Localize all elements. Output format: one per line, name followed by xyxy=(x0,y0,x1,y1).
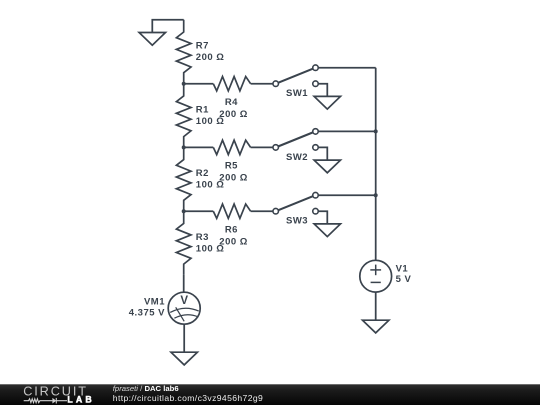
svg-text:V: V xyxy=(180,295,188,307)
wire SW3 throw to bus xyxy=(318,194,375,196)
svg-text:4.375 V: 4.375 V xyxy=(129,307,165,318)
wire SW2 throw to bus xyxy=(318,130,375,132)
voltage source V1 xyxy=(360,260,412,292)
ground xyxy=(314,224,340,237)
svg-text:SW3: SW3 xyxy=(286,216,308,227)
node junction R7/R1/R4 xyxy=(182,82,186,86)
svg-text:200 Ω: 200 Ω xyxy=(219,109,248,120)
wire R6 to SW3 xyxy=(251,210,273,212)
ground xyxy=(314,160,340,173)
svg-text:VM1: VM1 xyxy=(144,296,165,307)
node junction R2/R3/R6 xyxy=(182,209,186,213)
resistor R1 xyxy=(176,84,224,148)
wire junction to R4 xyxy=(184,83,214,85)
svg-text:R4: R4 xyxy=(225,97,238,108)
wire V1 to ground xyxy=(375,292,377,320)
footer bar xyxy=(0,384,540,405)
wire top ground to R7 xyxy=(152,20,183,33)
wire junction to R6 xyxy=(184,210,214,212)
resistor R4 xyxy=(213,77,250,120)
svg-text:R5: R5 xyxy=(225,161,238,172)
svg-text:SW1: SW1 xyxy=(286,88,308,99)
wire VM1 to ground xyxy=(183,324,185,352)
svg-text:200 Ω: 200 Ω xyxy=(196,52,225,63)
svg-text:http://circuitlab.com/c3vz9456: http://circuitlab.com/c3vz9456h72g9 xyxy=(113,393,263,403)
resistor R3 xyxy=(176,211,224,275)
svg-text:SW2: SW2 xyxy=(286,152,308,163)
wire R4 to SW1 xyxy=(251,83,273,85)
wire SW2 lower throw to ground xyxy=(318,147,327,160)
node bus/SW2 junction xyxy=(374,129,378,133)
svg-text:fpraseti / DAC lab6: fpraseti / DAC lab6 xyxy=(113,384,179,393)
switch SW1 xyxy=(273,65,318,99)
resistor R2 xyxy=(176,147,224,211)
ground xyxy=(171,352,197,365)
resistor R6 xyxy=(213,204,250,247)
node junction R1/R2/R5 xyxy=(182,145,186,149)
ground xyxy=(139,33,165,46)
wire R5 to SW2 xyxy=(251,146,273,148)
wire SW3 lower throw to ground xyxy=(318,211,327,224)
wire SW1 throw to bus xyxy=(318,67,375,69)
svg-text:5 V: 5 V xyxy=(396,274,412,285)
voltmeter VM1 xyxy=(129,292,200,324)
wire R3 to VM1 xyxy=(183,275,185,292)
svg-text:200 Ω: 200 Ω xyxy=(219,172,248,183)
svg-text:LAB: LAB xyxy=(67,395,94,405)
wire right bus xyxy=(375,68,377,261)
node bus/SW3 junction xyxy=(374,193,378,197)
CircuitLab logo schematic glyph (resistor + diode) xyxy=(24,398,67,404)
resistor R7 xyxy=(176,20,224,84)
switch SW3 xyxy=(273,192,318,226)
resistor R5 xyxy=(213,140,250,183)
wire junction to R5 xyxy=(184,146,214,148)
svg-text:V1: V1 xyxy=(396,263,409,274)
ground xyxy=(363,320,389,333)
svg-text:R1: R1 xyxy=(196,104,209,115)
svg-text:R6: R6 xyxy=(225,224,238,235)
svg-text:R3: R3 xyxy=(196,232,209,243)
switch SW2 xyxy=(273,129,318,163)
svg-text:200 Ω: 200 Ω xyxy=(219,236,248,247)
svg-text:R7: R7 xyxy=(196,41,209,52)
wire SW1 lower throw to ground xyxy=(318,84,327,97)
svg-text:R2: R2 xyxy=(196,168,209,179)
ground xyxy=(314,96,340,109)
